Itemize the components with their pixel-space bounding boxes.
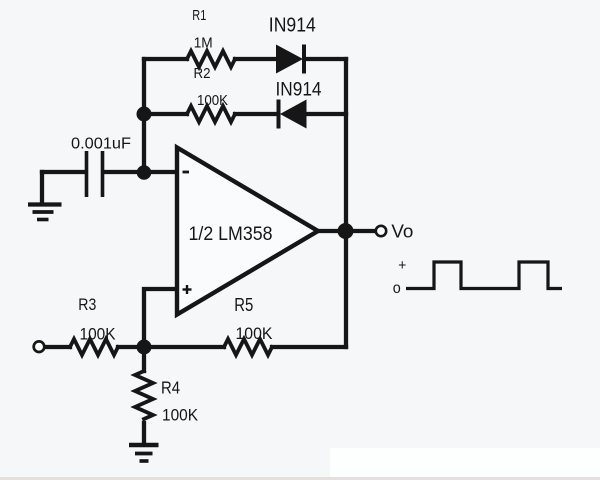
ground (top left) <box>28 205 62 220</box>
svg-text:1M: 1M <box>194 35 213 52</box>
op-amp minus sign <box>183 171 190 174</box>
node A (rail/R2 junction) <box>137 107 152 122</box>
svg-text:IN914: IN914 <box>269 14 316 36</box>
resistor R1 <box>187 51 235 67</box>
svg-text:100K: 100K <box>236 325 273 343</box>
node B (cap / minus input junction) <box>137 165 152 180</box>
wire top branch left <box>144 57 187 61</box>
wire plus input <box>144 289 177 347</box>
node D (R3/R4/R5 junction) <box>137 340 152 355</box>
resistor R2 <box>187 106 235 122</box>
wire output <box>318 229 375 233</box>
wire R3 to node <box>118 345 224 349</box>
wire R5 to right rail <box>272 345 346 349</box>
capacitor C1 0.001uF plates <box>87 151 103 197</box>
svg-text:R2: R2 <box>194 65 211 82</box>
op-amp plus sign <box>183 285 192 294</box>
op-amp U1 1/2 LM358 <box>177 148 318 315</box>
wire R1 to D1 <box>235 57 276 61</box>
resistor R3 <box>70 339 118 355</box>
svg-text:100K: 100K <box>197 92 228 109</box>
right rail wire <box>344 59 348 347</box>
svg-text:IN914: IN914 <box>276 79 322 101</box>
svg-text:R1: R1 <box>192 7 206 24</box>
wire input terminal to R3 <box>45 345 70 349</box>
svg-text:+: + <box>398 257 406 274</box>
ground (under R4) <box>129 445 159 461</box>
svg-text:R4: R4 <box>161 378 180 398</box>
node C (output junction) <box>338 223 354 239</box>
svg-text:Vo: Vo <box>391 221 413 242</box>
terminal Vo <box>376 226 386 236</box>
waveform square wave <box>406 262 562 289</box>
wire ground stem <box>40 172 44 203</box>
resistor R5 <box>224 339 272 355</box>
resistor R4 <box>135 371 153 419</box>
wire ground to capacitor <box>42 170 85 174</box>
diode D2 IN914 <box>277 100 307 129</box>
wire D2 to right rail <box>306 112 346 116</box>
left rail wire <box>142 59 146 173</box>
svg-text:R3: R3 <box>78 295 96 314</box>
wire node to R4 <box>142 347 146 371</box>
svg-text:100K: 100K <box>162 406 199 425</box>
diode D1 IN914 <box>276 45 306 74</box>
svg-text:100K: 100K <box>80 325 117 344</box>
wire R4 to ground <box>142 423 146 443</box>
svg-text:1/2 LM358: 1/2 LM358 <box>189 223 273 245</box>
wire branch2 left <box>144 112 187 116</box>
svg-text:R5: R5 <box>234 295 253 315</box>
wire D1 to right rail <box>305 57 346 61</box>
svg-text:o: o <box>393 280 401 297</box>
wire capacitor to node <box>104 170 144 174</box>
wire minus input <box>144 170 177 174</box>
wire R2 to D2 <box>235 112 278 116</box>
terminal input <box>34 341 45 352</box>
svg-text:0.001uF: 0.001uF <box>71 135 131 152</box>
